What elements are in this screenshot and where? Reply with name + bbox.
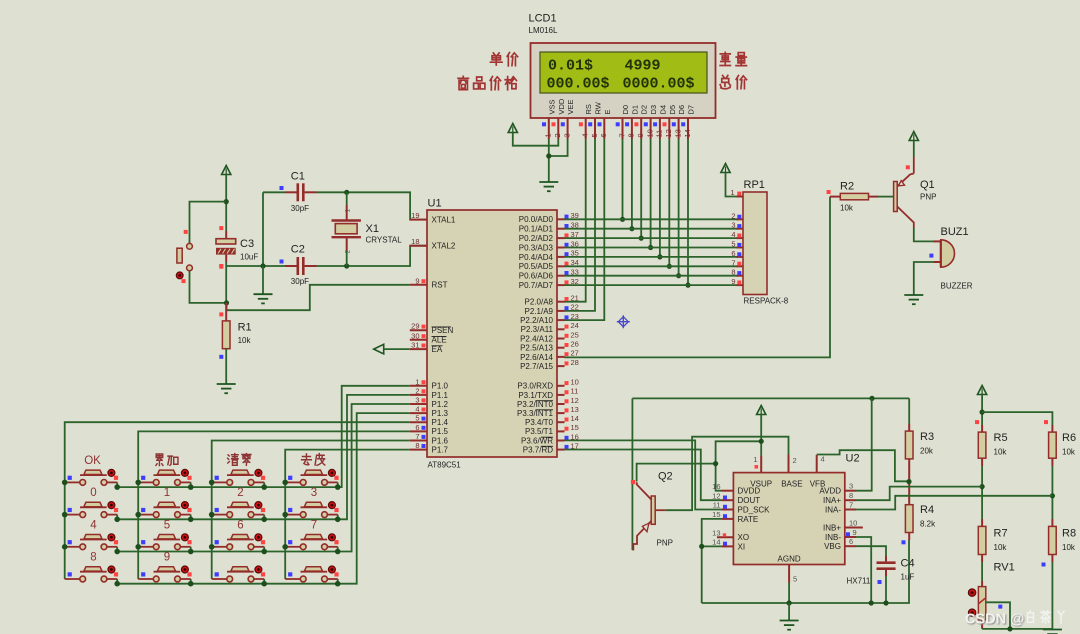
svg-text:D7: D7 <box>687 105 696 115</box>
svg-text:8: 8 <box>415 441 419 450</box>
push button keypad r1c1 OK <box>65 481 80 483</box>
svg-text:2: 2 <box>731 211 735 220</box>
ground bus <box>702 540 909 603</box>
label 单价 <box>490 53 502 65</box>
U1 pin 39 P0.0/AD0 <box>557 218 565 220</box>
svg-text:PD_SCK: PD_SCK <box>738 505 771 514</box>
U1 pin 24 P2.3/A11 <box>557 328 565 330</box>
svg-text:INA+: INA+ <box>823 496 841 505</box>
svg-text:AVDD: AVDD <box>819 487 841 496</box>
wire C1-C2 left column <box>262 192 264 266</box>
junction INA- <box>1050 493 1055 498</box>
U1 pin 14 P3.4/T0 <box>557 421 565 423</box>
svg-text:P1.1: P1.1 <box>432 391 449 400</box>
svg-text:XO: XO <box>738 533 750 542</box>
svg-text:INA-: INA- <box>825 505 841 514</box>
U2 pin 2 BASE <box>788 455 790 473</box>
svg-text:C3: C3 <box>240 238 254 250</box>
svg-text:Q1: Q1 <box>920 179 935 191</box>
LCD pin 5 RW <box>594 118 596 139</box>
wire VDD to VCC <box>513 133 559 146</box>
svg-text:P1.3: P1.3 <box>432 409 449 418</box>
svg-text:D4: D4 <box>658 105 667 115</box>
svg-text:1: 1 <box>753 455 757 464</box>
U1 pin 11 P3.1/TXD <box>557 394 565 396</box>
wire Q1 collector to BUZ1 <box>914 228 934 241</box>
svg-text:RW: RW <box>594 101 603 114</box>
push button keypad r2c1 0 <box>65 514 80 516</box>
resistor R2 <box>830 196 840 198</box>
svg-text:5: 5 <box>793 575 797 584</box>
wire LCD D4 to P0.4 bus <box>659 139 661 257</box>
svg-text:R8: R8 <box>1062 528 1076 540</box>
resistor R3 <box>908 398 910 424</box>
wire INA+ <box>856 487 982 501</box>
wire P0.5 to RP1 pin 7 <box>565 265 739 267</box>
svg-text:P0.1/AD1: P0.1/AD1 <box>519 225 554 234</box>
svg-text:1uF: 1uF <box>901 573 915 582</box>
LCD pin 4 RS <box>585 118 587 139</box>
svg-text:CRYSTAL: CRYSTAL <box>366 236 403 245</box>
resistor pack RP1 <box>743 192 767 295</box>
svg-text:0.01$: 0.01$ <box>548 58 593 75</box>
svg-text:10k: 10k <box>840 204 854 213</box>
svg-text:10k: 10k <box>238 336 252 345</box>
keypad column 3 wire to P1.6 <box>212 441 410 580</box>
wire P2.6 to R2 <box>565 197 831 358</box>
svg-text:LCD1: LCD1 <box>529 13 557 25</box>
wire R2 to Q1 base <box>878 196 894 198</box>
resistor R6 <box>1051 425 1053 432</box>
svg-text:P0.6/AD6: P0.6/AD6 <box>519 272 554 281</box>
svg-text:15: 15 <box>712 510 720 519</box>
RP1 pin 4 <box>737 237 744 239</box>
push button keypad r4c1 8 <box>65 578 80 580</box>
svg-text:30pF: 30pF <box>291 277 309 286</box>
svg-text:P1.7: P1.7 <box>432 446 449 455</box>
resistor R5 <box>981 425 983 432</box>
svg-text:D3: D3 <box>649 105 658 115</box>
svg-text:RESPACK-8: RESPACK-8 <box>744 297 789 306</box>
keypad row 3 wire to P1.2 <box>117 404 410 552</box>
svg-text:5: 5 <box>164 519 170 531</box>
svg-text:10: 10 <box>571 378 579 387</box>
svg-text:P1.6: P1.6 <box>432 436 449 445</box>
resistor R8 <box>1051 519 1053 526</box>
wire P0.7 to RP1 pin 9 <box>565 284 739 286</box>
wire AVDD to rail <box>856 398 872 490</box>
svg-text:8.2k: 8.2k <box>920 520 936 529</box>
svg-text:R3: R3 <box>920 431 934 443</box>
svg-text:P1.2: P1.2 <box>432 400 449 409</box>
push button keypad r1c3 ql <box>212 481 227 483</box>
svg-text:XTAL2: XTAL2 <box>432 242 456 251</box>
capacitor C4 <box>885 556 887 561</box>
LCD pin 8 D1 <box>631 118 633 139</box>
svg-text:Q2: Q2 <box>658 471 673 483</box>
resistor R7 <box>981 519 983 526</box>
svg-text:P2.2/A10: P2.2/A10 <box>520 316 553 325</box>
RP1 pin 6 <box>737 256 744 258</box>
svg-text:1: 1 <box>345 209 352 213</box>
svg-text:BASE: BASE <box>781 480 802 489</box>
RP1 pin 1 <box>737 196 744 198</box>
svg-text:P1.4: P1.4 <box>432 418 449 427</box>
svg-text:P3.0/RXD: P3.0/RXD <box>517 382 553 391</box>
svg-text:R2: R2 <box>840 181 854 193</box>
wire R8 to ground <box>1051 555 1053 563</box>
svg-text:INB-: INB- <box>825 533 841 542</box>
svg-text:P2.3/A11: P2.3/A11 <box>521 325 554 334</box>
svg-text:5: 5 <box>415 414 419 423</box>
svg-text:15: 15 <box>571 423 579 432</box>
wire to reset button top <box>190 202 227 244</box>
svg-text:1: 1 <box>164 487 170 499</box>
svg-text:4: 4 <box>415 405 419 414</box>
wire INA- <box>856 496 1052 510</box>
svg-text:5: 5 <box>590 133 599 137</box>
svg-text:10k: 10k <box>1062 543 1076 552</box>
crystal X1 <box>346 192 348 205</box>
svg-text:C4: C4 <box>901 558 915 570</box>
svg-text:R1: R1 <box>238 322 252 334</box>
ground BUZ1 <box>904 294 923 296</box>
svg-text:0: 0 <box>90 487 96 499</box>
svg-text:LM016L: LM016L <box>529 26 558 35</box>
wire LCD D5 to P0.5 bus <box>668 139 670 266</box>
svg-text:D5: D5 <box>668 105 677 115</box>
push button keypad r4c3 button <box>212 578 227 580</box>
wire C3 column to osc ground <box>226 265 263 267</box>
push button keypad r4c4 button <box>285 578 300 580</box>
svg-text:P0.0/AD0: P0.0/AD0 <box>519 215 554 224</box>
svg-text:EA: EA <box>432 345 443 354</box>
keypad label lj <box>156 454 163 466</box>
wire C4 to bus <box>885 576 887 603</box>
junction INA+ <box>980 484 985 489</box>
LCD pin 3 VEE <box>567 118 569 139</box>
wire rail to Q2 emitter <box>631 398 633 550</box>
RP1 pin 2 <box>737 218 744 220</box>
U1 pin 25 P2.4/A12 <box>557 338 565 340</box>
svg-text:14: 14 <box>571 414 579 423</box>
keypad column 2 wire to P1.5 <box>138 431 410 579</box>
svg-text:D1: D1 <box>630 105 639 115</box>
svg-text:P2.5/A13: P2.5/A13 <box>520 344 553 353</box>
wire VEE to VSS <box>549 139 568 156</box>
wire LCD D7 to P0.7 bus <box>687 139 689 285</box>
LCD pin 9 D2 <box>640 118 642 139</box>
svg-text:C2: C2 <box>291 244 305 256</box>
LCD pin 6 E <box>603 118 605 139</box>
wire R6 to R8 <box>1051 458 1053 466</box>
U1 pin 4 P1.3 <box>410 412 427 414</box>
wire VBG to C4 <box>856 546 886 556</box>
U1 pin 28 P2.7/A15 <box>557 365 565 367</box>
svg-text:2: 2 <box>553 133 562 137</box>
svg-text:P0.3/AD3: P0.3/AD3 <box>519 243 554 252</box>
svg-text:2: 2 <box>793 456 797 465</box>
RP1 pin 3 <box>737 228 744 230</box>
wire junction to RST pin 9 <box>227 285 410 310</box>
push button keypad r3c2 5 <box>138 546 153 548</box>
U1 pin 18 XTAL2 <box>410 245 427 247</box>
U2 pin 16 DVDD <box>722 490 733 492</box>
U1 pin 34 P0.5/AD5 <box>557 265 565 267</box>
svg-text:P2.1/A9: P2.1/A9 <box>525 307 554 316</box>
U1 pin 16 P3.6/WR <box>557 440 565 442</box>
keypad label ql <box>228 454 239 466</box>
reset push button <box>187 243 193 249</box>
U1 pin 35 P0.4/AD4 <box>557 256 565 258</box>
wire P0.6 to RP1 pin 8 <box>565 275 739 277</box>
svg-text:11: 11 <box>571 387 579 396</box>
svg-text:P0.7/AD7: P0.7/AD7 <box>519 281 554 290</box>
U2 pin 11 PD_SCK <box>722 509 733 511</box>
wire C3 to junction <box>225 262 227 303</box>
svg-text:2: 2 <box>345 250 352 254</box>
U2 pin 14 XI <box>722 545 733 547</box>
svg-text:31: 31 <box>411 341 419 350</box>
U1 pin 5 P1.4 <box>410 421 427 423</box>
svg-text:P3.6/WR: P3.6/WR <box>521 436 553 445</box>
svg-text:22: 22 <box>571 303 579 312</box>
U1 pin 29 PSEN <box>410 329 427 331</box>
wire LCD D3 to P0.3 bus <box>650 139 652 248</box>
wire Q2 base from U2 net <box>637 464 716 482</box>
svg-text:3: 3 <box>849 482 853 491</box>
svg-text:HX711: HX711 <box>847 577 871 586</box>
U1 pin 33 P0.6/AD6 <box>557 275 565 277</box>
svg-text:DVDD: DVDD <box>738 487 761 496</box>
svg-text:R7: R7 <box>994 528 1008 540</box>
svg-text:4: 4 <box>821 455 825 464</box>
blue origin marker <box>617 315 630 328</box>
svg-text:11: 11 <box>713 501 721 510</box>
wire VFB to R3/R4 <box>817 450 909 481</box>
svg-text:0000.00$: 0000.00$ <box>623 76 695 93</box>
U2 pin 6 VBG <box>845 545 856 547</box>
ground LCD <box>539 181 558 183</box>
RP1 pin 8 <box>737 275 744 277</box>
U1 pin 2 P1.1 <box>410 394 427 396</box>
U2 pin 10 INB+ <box>845 527 863 529</box>
U2 pin 4 VFB <box>816 455 818 473</box>
op U2 HX711 body <box>733 473 844 565</box>
LCD pin 2 VDD <box>557 118 559 139</box>
svg-text:14: 14 <box>683 129 692 137</box>
svg-text:3: 3 <box>311 487 317 499</box>
svg-text:10k: 10k <box>994 448 1008 457</box>
svg-text:VDD: VDD <box>557 98 566 114</box>
svg-text:8: 8 <box>627 133 636 137</box>
svg-text:9: 9 <box>853 528 857 537</box>
svg-text:D2: D2 <box>640 105 649 115</box>
wire P3.7 to DOUT <box>565 450 723 501</box>
LCD1 screen <box>540 52 707 93</box>
wire LCD D2 to P0.2 bus <box>640 139 642 238</box>
U1 pin 27 P2.6/A14 <box>557 356 565 358</box>
wire R1 to ground <box>225 349 227 384</box>
svg-text:6: 6 <box>731 249 735 258</box>
power VSUP arrow <box>757 406 766 415</box>
svg-text:28: 28 <box>571 358 579 367</box>
keypad row 2 wire to P1.1 <box>117 395 410 519</box>
svg-text:4: 4 <box>731 230 735 239</box>
svg-text:13: 13 <box>571 405 579 414</box>
U1 pin 6 P1.5 <box>410 430 427 432</box>
svg-text:DOUT: DOUT <box>738 496 761 505</box>
svg-text:P2.4/A12: P2.4/A12 <box>520 334 553 343</box>
svg-text:P0.2/AD2: P0.2/AD2 <box>519 234 554 243</box>
svg-text:7: 7 <box>731 258 735 267</box>
U1 pin 30 ALE <box>410 339 427 341</box>
capacitor C3 <box>225 231 227 239</box>
svg-text:12: 12 <box>664 129 673 137</box>
svg-text:9: 9 <box>164 552 170 564</box>
wire reset button bottom <box>190 271 227 303</box>
push button keypad r1c2 lj <box>138 481 153 483</box>
svg-text:10k: 10k <box>1062 448 1076 457</box>
svg-text:OK: OK <box>84 455 101 467</box>
power VCC arrow RP1 <box>721 164 730 173</box>
wire P0.3 to RP1 pin 5 <box>565 247 739 249</box>
svg-text:12: 12 <box>571 396 579 405</box>
wire AGND to bus <box>788 583 790 604</box>
svg-text:23: 23 <box>571 312 579 321</box>
svg-text:PNP: PNP <box>657 539 673 548</box>
U2 pin 7 INA- <box>845 509 856 511</box>
svg-text:8: 8 <box>90 552 96 564</box>
U2 pin 1 VSUP <box>760 456 762 473</box>
ground R1 <box>217 383 236 385</box>
keypad row 4 wire to P1.3 <box>117 413 410 584</box>
RP1 pin 9 <box>737 284 744 286</box>
U2 pin 8 INA+ <box>845 499 856 501</box>
EA power arrow <box>374 344 384 354</box>
transistor Q1 PNP <box>894 182 898 212</box>
power VCC arrow right <box>978 386 987 395</box>
push button keypad r3c3 6 <box>212 546 227 548</box>
svg-text:CSDN @: CSDN @ <box>965 612 1024 628</box>
LCD pin 11 D4 <box>659 118 661 139</box>
svg-text:U2: U2 <box>846 453 860 465</box>
LCD pin 14 D7 <box>687 118 689 139</box>
U1 pin 8 P1.7 <box>410 449 427 451</box>
push button keypad r3c1 4 <box>65 546 80 548</box>
RP1 pin 7 <box>737 265 744 267</box>
wire VCC to Q1 emitter <box>913 141 915 158</box>
svg-text:8: 8 <box>731 268 735 277</box>
svg-text:3: 3 <box>562 133 571 137</box>
svg-text:25: 25 <box>571 330 579 339</box>
svg-text:19: 19 <box>411 211 419 220</box>
wire LCD D6 to P0.6 bus <box>678 139 680 276</box>
wire EA <box>384 348 410 350</box>
svg-text:4: 4 <box>90 519 97 531</box>
junction VSUP <box>759 439 764 444</box>
keypad column 1 wire to P1.4 <box>65 422 410 579</box>
U2 pin 13 XO <box>717 536 733 538</box>
transistor Q2 PNP <box>651 496 655 524</box>
wire P0.4 to RP1 pin 6 <box>565 256 739 258</box>
wire LCD D0 to P0.0 bus <box>622 139 624 219</box>
U1 pin 22 P2.1/A9 <box>557 310 565 312</box>
push button keypad r2c2 1 <box>138 514 153 516</box>
svg-text:P3.5/T1: P3.5/T1 <box>525 427 554 436</box>
svg-text:18: 18 <box>411 237 419 246</box>
junction VSS/VEE <box>546 153 551 158</box>
U1 pin 3 P1.2 <box>410 403 427 405</box>
svg-text:RP1: RP1 <box>744 179 765 191</box>
svg-text:R4: R4 <box>920 504 934 516</box>
svg-text:1: 1 <box>544 133 553 137</box>
ground R8 <box>1043 629 1062 631</box>
svg-text:RST: RST <box>432 281 448 290</box>
push button keypad r1c4 qp <box>285 481 300 483</box>
svg-text:8: 8 <box>849 491 853 500</box>
power VCC arrow at LCD VDD <box>508 124 517 133</box>
label 总价 <box>720 75 730 88</box>
svg-text:2: 2 <box>237 487 243 499</box>
wire R5 to R7 <box>981 458 983 466</box>
push button keypad r2c4 3 <box>285 514 300 516</box>
svg-text:10k: 10k <box>994 543 1008 552</box>
svg-text:7: 7 <box>311 519 317 531</box>
svg-text:13: 13 <box>712 529 720 538</box>
svg-text:26: 26 <box>571 340 579 349</box>
wire P0.2 to RP1 pin 4 <box>565 237 739 239</box>
U1 pin 17 P3.7/RD <box>557 449 565 451</box>
svg-text:PNP: PNP <box>920 193 936 202</box>
svg-text:10: 10 <box>645 129 654 137</box>
svg-text:6: 6 <box>849 537 853 546</box>
svg-text:6: 6 <box>415 423 419 432</box>
LCD pin 10 D3 <box>650 118 652 139</box>
RP1 pin 5 <box>737 247 744 249</box>
svg-text:VSS: VSS <box>547 99 556 114</box>
top rail wire <box>632 397 909 399</box>
svg-text:10: 10 <box>849 518 857 527</box>
push button keypad r4c2 9 <box>138 578 153 580</box>
svg-text:R6: R6 <box>1062 432 1076 444</box>
wire P0.0 to RP1 pin 2 <box>565 218 739 220</box>
junction rail/AVDD <box>869 396 874 401</box>
svg-text:INB+: INB+ <box>823 523 841 532</box>
wire INB- to bus <box>856 537 871 603</box>
U2 pin 3 AVDD <box>845 490 856 492</box>
svg-text:XTAL1: XTAL1 <box>432 216 456 225</box>
svg-text:X1: X1 <box>366 223 379 235</box>
wire Q2 collector lead to U2 BASE <box>655 509 665 511</box>
wire P3.6 to PD_SCK <box>565 440 723 509</box>
svg-text:D0: D0 <box>621 105 630 115</box>
svg-text:20k: 20k <box>920 447 934 456</box>
svg-text:29: 29 <box>411 322 419 331</box>
U1 pin 10 P3.0/RXD <box>557 385 565 387</box>
svg-text:4: 4 <box>581 133 590 137</box>
wire C2 to XTAL2 <box>347 246 427 266</box>
svg-text:P0.5/AD5: P0.5/AD5 <box>519 262 554 271</box>
svg-text:AT89C51: AT89C51 <box>428 461 462 470</box>
svg-text:AGND: AGND <box>778 555 801 564</box>
svg-text:9: 9 <box>636 133 645 137</box>
U1 pin 7 P1.6 <box>410 440 427 442</box>
svg-text:RV1: RV1 <box>994 562 1015 574</box>
wire R3 to R4 <box>908 459 910 505</box>
svg-text:BUZ1: BUZ1 <box>941 226 969 238</box>
svg-text:2: 2 <box>415 386 419 395</box>
